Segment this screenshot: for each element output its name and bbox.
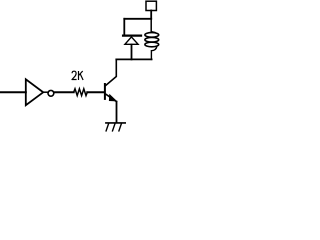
transistor Q1 emitter diagonal with arrow: [106, 94, 117, 101]
ground hatch 2: [113, 124, 116, 131]
wire input to inverter: [1, 91, 26, 93]
wire apex to bubble: [43, 91, 48, 93]
resistor R1 value 2K label: [72, 71, 83, 80]
terminal square pad: [146, 1, 156, 10]
emitter arrowhead: [109, 94, 117, 102]
node junction horizontal collector/diode/coil: [116, 58, 151, 60]
wire square terminal down: [150, 11, 152, 19]
resistor R1 zigzag: [74, 89, 88, 96]
wire resistor to transistor base: [87, 91, 104, 93]
ground bar: [106, 122, 125, 124]
diode D1 cathode bar: [123, 34, 141, 36]
inverter U1 triangle: [26, 79, 43, 105]
inverter output bubble: [48, 90, 54, 96]
wire diode bottom to junction: [131, 45, 133, 60]
ground hatch 1: [106, 124, 109, 131]
inductor L1 loop 2: [145, 37, 159, 42]
diode D1 triangle: [125, 37, 138, 44]
wire diode top: [123, 19, 125, 35]
wire top of coil: [151, 19, 155, 33]
transistor Q1 collector diagonal: [106, 59, 117, 85]
wire emitter down to ground: [116, 102, 118, 123]
inductor L1 loop 1: [145, 33, 159, 38]
transistor Q1 base bar: [104, 84, 106, 99]
inductor L1 loop 3: [145, 42, 159, 47]
wire bubble to resistor: [54, 91, 74, 93]
ground hatch 3: [119, 124, 122, 131]
wire top horizontal: [124, 18, 151, 20]
inductor L1 exit curl: [151, 46, 157, 59]
